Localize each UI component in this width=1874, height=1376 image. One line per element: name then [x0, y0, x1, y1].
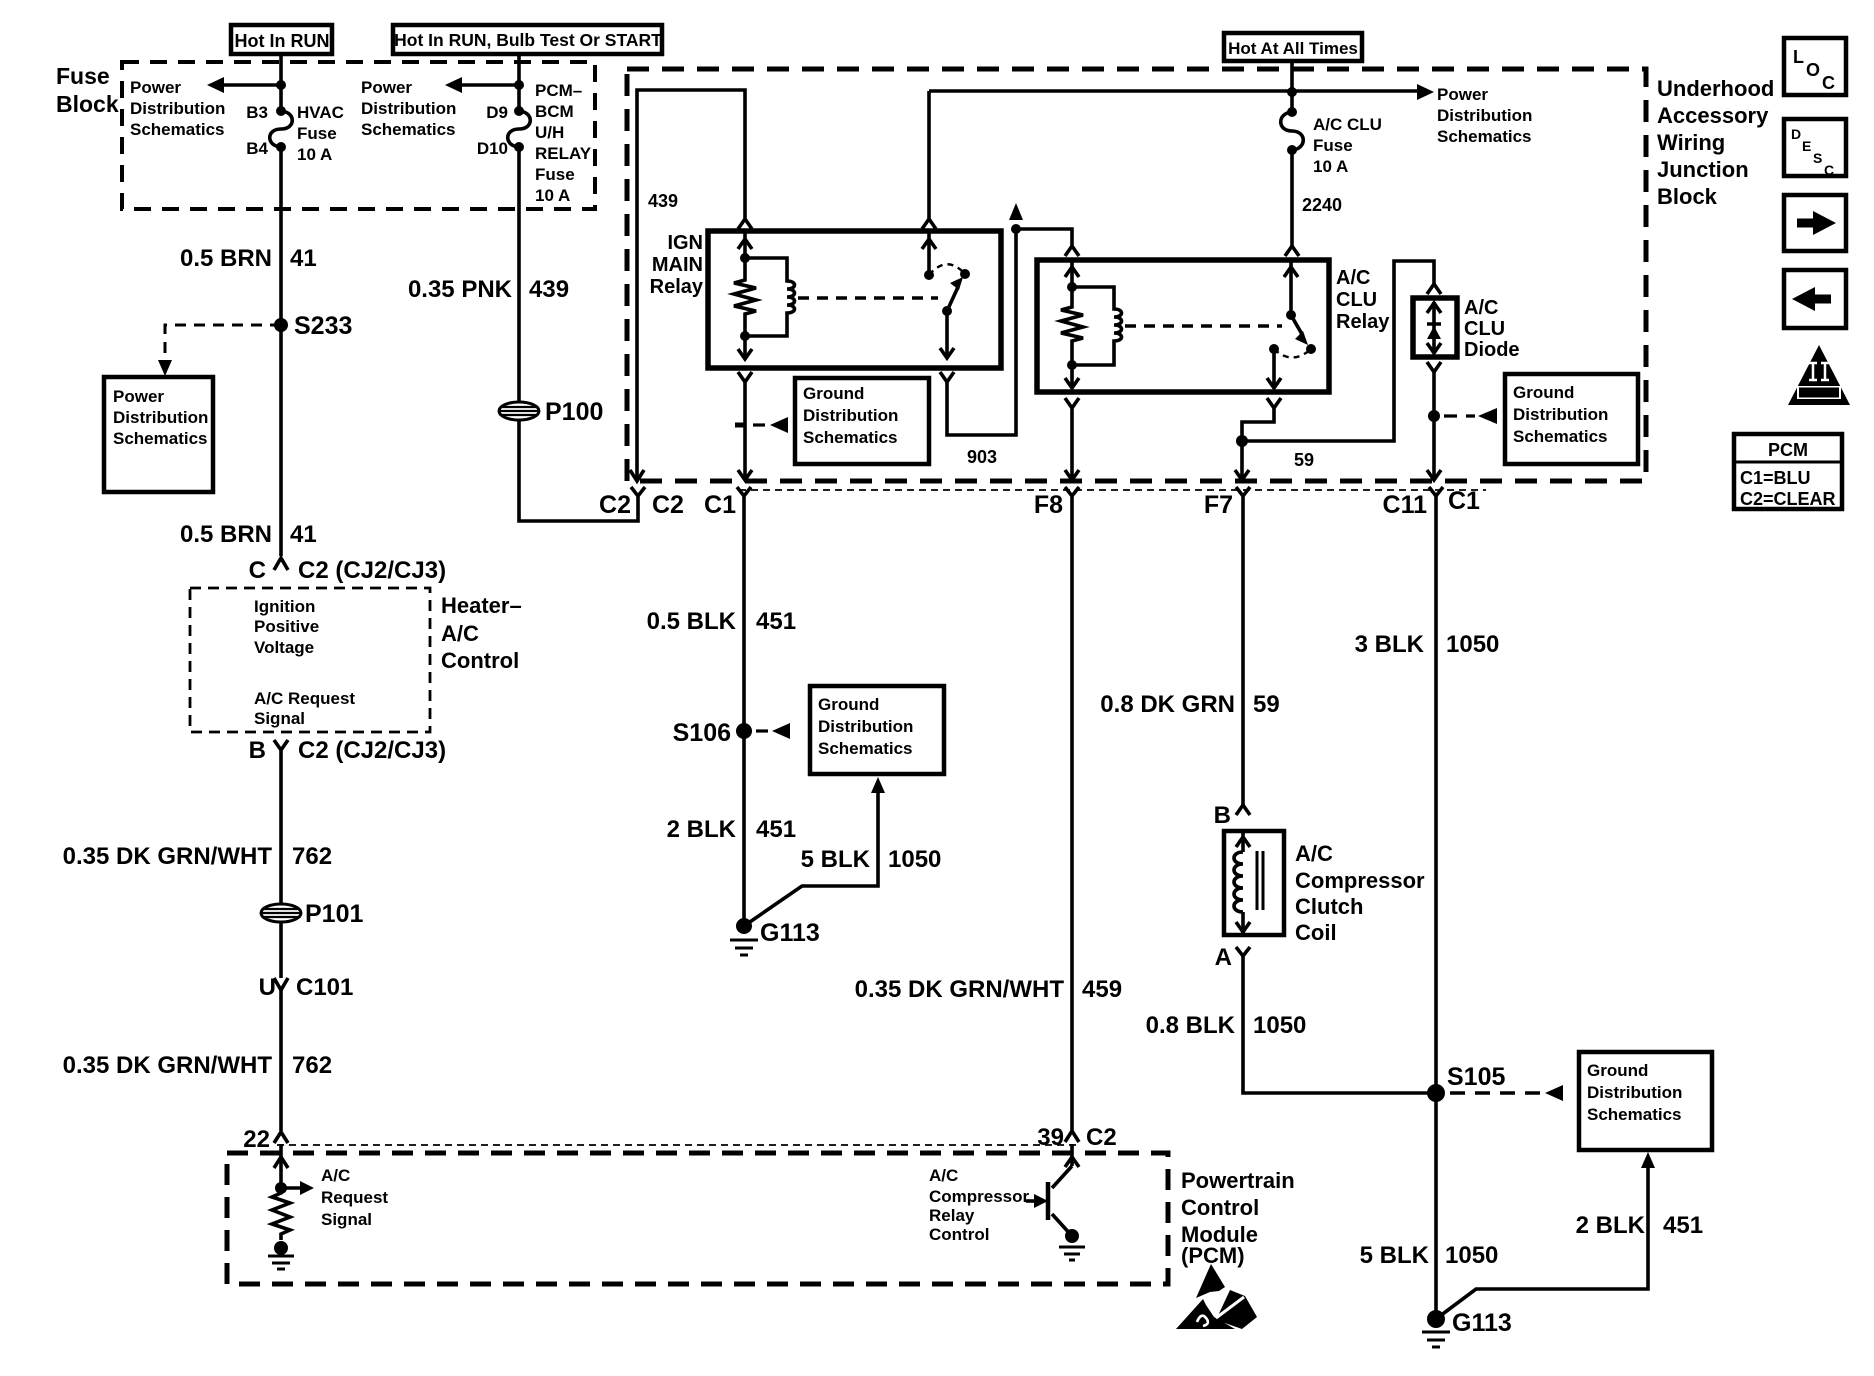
svg-text:G113: G113	[760, 919, 820, 947]
label: 5 BLK 1050 (left)	[801, 846, 942, 873]
label: 0.8 DK GRN 59	[1100, 691, 1279, 718]
svg-text:Distribution: Distribution	[113, 408, 208, 427]
svg-text:Schematics: Schematics	[1587, 1105, 1682, 1124]
svg-text:Distribution: Distribution	[361, 99, 456, 118]
svg-text:1050: 1050	[888, 846, 941, 873]
relay IGN MAIN: switch contacts	[924, 264, 970, 358]
svg-text:Block: Block	[1657, 184, 1718, 209]
svg-text:A/C: A/C	[1464, 297, 1498, 319]
svg-text:3 BLK: 3 BLK	[1355, 631, 1425, 658]
svg-text:(PCM): (PCM)	[1181, 1243, 1245, 1268]
wire: circuit 439 inside junction block	[630, 90, 745, 481]
pin C1 of junction block	[704, 487, 751, 519]
svg-text:Control: Control	[1181, 1195, 1259, 1220]
label: 0.35 PNK 439	[408, 276, 569, 303]
svg-text:Distribution: Distribution	[1513, 405, 1608, 424]
wire: 0.35 DK GRN/WHT 762 (upper)	[279, 758, 283, 905]
margin icon: OBD II triangle	[1788, 345, 1850, 405]
svg-text:Fuse: Fuse	[535, 165, 575, 184]
svg-text:Accessory: Accessory	[1657, 103, 1769, 128]
fuse: HVAC Fuse 10 A (B3-B4)	[246, 103, 344, 164]
margin icon: DESC box	[1784, 119, 1846, 178]
svg-text:A/C: A/C	[321, 1166, 350, 1185]
label: 2 BLK 451 (S106 branch)	[667, 816, 796, 843]
node: IGN relay ground reference	[735, 417, 788, 433]
margin icon: LOC box	[1784, 38, 1846, 95]
svg-text:Control: Control	[441, 648, 519, 673]
wire: 0.35 DK GRN/WHT 459 (F8 to PCM pin 39)	[1070, 496, 1074, 1131]
svg-text:0.35 PNK: 0.35 PNK	[408, 276, 513, 303]
svg-text:903: 903	[967, 447, 997, 467]
label: Fuse Block	[56, 63, 119, 117]
svg-text:MAIN: MAIN	[652, 254, 703, 276]
relay A/C CLU: outline	[1037, 260, 1329, 392]
pin A of A/C compressor clutch coil	[1215, 944, 1250, 971]
node: tap to power distribution (PCM-BCM fuse)	[445, 77, 524, 93]
pin B of A/C compressor clutch coil	[1214, 802, 1250, 829]
relay A/C CLU: actuation link (dashed)	[1125, 324, 1282, 328]
svg-text:HVAC: HVAC	[297, 103, 344, 122]
label: A/C CLU Relay	[1336, 267, 1390, 333]
svg-text:Schematics: Schematics	[1437, 127, 1532, 146]
label: IGN MAIN Relay	[650, 232, 704, 298]
pin C2 of junction block (feed)	[599, 487, 684, 519]
svg-text:C101: C101	[296, 974, 353, 1001]
svg-text:Distribution: Distribution	[803, 406, 898, 425]
svg-text:1050: 1050	[1446, 631, 1499, 658]
svg-text:Underhood: Underhood	[1657, 76, 1774, 101]
svg-text:Diode: Diode	[1464, 339, 1520, 361]
svg-text:PCM: PCM	[1768, 440, 1808, 460]
svg-text:Signal: Signal	[321, 1210, 372, 1229]
text: Power Distribution Schematics (top right)	[1437, 85, 1532, 146]
svg-text:E: E	[1802, 138, 1811, 154]
wire: 0.5 BRN 41 (fuse B4 to connector C)	[279, 147, 283, 556]
svg-text:C2: C2	[599, 491, 631, 519]
svg-text:Relay: Relay	[1336, 311, 1390, 333]
svg-text:O: O	[1806, 60, 1820, 80]
box: Ground Distribution Schematics (diode)	[1505, 374, 1638, 464]
wire: 0.8 DK GRN 59 (F7 to clutch coil B)	[1241, 496, 1245, 805]
svg-text:B: B	[1214, 802, 1231, 829]
svg-text:P101: P101	[305, 900, 363, 928]
svg-text:762: 762	[292, 843, 332, 870]
text: A/C Compressor Relay Control	[929, 1166, 1030, 1244]
wire: circuit 2240 (fuse to A/C CLU relay)	[1285, 150, 1342, 256]
label: 2 BLK 451 (right)	[1576, 1212, 1703, 1239]
svg-text:Heater–: Heater–	[441, 593, 522, 618]
pass-through connector P100	[499, 398, 603, 426]
svg-text:Relay: Relay	[650, 276, 704, 298]
svg-text:Distribution: Distribution	[1437, 106, 1532, 125]
wire: 2 BLK 451 (G113 up to ground distribution)	[1436, 1152, 1655, 1319]
relay IGN MAIN: switch pin feed	[922, 91, 936, 275]
pin 22 of PCM	[243, 1126, 288, 1153]
svg-text:0.5 BRN: 0.5 BRN	[180, 521, 272, 548]
svg-text:IGN: IGN	[667, 232, 703, 254]
svg-text:Power: Power	[130, 78, 181, 97]
wire: IGN relay coil ground side to C1	[738, 372, 752, 480]
svg-text:A/C: A/C	[441, 621, 479, 646]
margin icon: back arrow box	[1784, 270, 1846, 328]
svg-text:1050: 1050	[1445, 1242, 1498, 1269]
svg-text:D10: D10	[477, 139, 508, 158]
svg-text:C1: C1	[1448, 487, 1480, 515]
svg-text:BCM: BCM	[535, 102, 574, 121]
svg-text:Voltage: Voltage	[254, 638, 314, 657]
svg-text:451: 451	[756, 608, 796, 635]
svg-text:Schematics: Schematics	[803, 428, 898, 447]
wire: 0.35 PNK 439 (fuse D10 to P100 to C2)	[519, 147, 638, 521]
ESD sensitivity symbol	[1176, 1264, 1257, 1329]
svg-text:S: S	[1813, 150, 1822, 166]
svg-text:459: 459	[1082, 976, 1122, 1003]
svg-text:Schematics: Schematics	[113, 429, 208, 448]
node: tap to power distribution (HVAC fuse)	[207, 77, 286, 93]
svg-text:Hot In RUN: Hot In RUN	[235, 31, 330, 51]
relay A/C CLU: coil (resistor and winding in parallel)	[1061, 282, 1122, 388]
svg-text:P100: P100	[545, 398, 603, 426]
svg-text:0.5 BRN: 0.5 BRN	[180, 245, 272, 272]
svg-text:762: 762	[292, 1052, 332, 1079]
wire: 0.35 DK GRN/WHT 762 (lower)	[279, 990, 283, 1131]
wire: second feed into fuse block	[517, 54, 521, 111]
svg-text:Ground: Ground	[818, 695, 879, 714]
svg-text:0.5 BLK: 0.5 BLK	[647, 608, 737, 635]
svg-text:A/C Request: A/C Request	[254, 689, 355, 708]
A/C compressor clutch coil	[1224, 831, 1284, 935]
box: Ground Distribution Schematics (S106)	[810, 686, 944, 774]
svg-text:451: 451	[1663, 1212, 1703, 1239]
svg-text:C: C	[1822, 73, 1835, 93]
svg-text:Ground: Ground	[803, 384, 864, 403]
svg-text:C1=BLU: C1=BLU	[1740, 468, 1811, 488]
relay IGN MAIN: actuation link (dashed)	[798, 296, 938, 300]
svg-text:0.35 DK GRN/WHT: 0.35 DK GRN/WHT	[63, 1052, 273, 1079]
text: Power Distribution Schematics (fuse block right)	[361, 78, 456, 139]
ground G113 (left)	[730, 918, 820, 955]
pin C11/C1 of junction block	[1383, 487, 1481, 519]
svg-text:41: 41	[290, 245, 317, 272]
splice S106	[673, 719, 790, 747]
svg-text:Compressor: Compressor	[929, 1187, 1030, 1206]
svg-text:451: 451	[756, 816, 796, 843]
svg-text:OBD II: OBD II	[1805, 388, 1833, 398]
wire: 3 BLK 1050 (C11 to S105 to G113)	[1434, 496, 1438, 1319]
box: Ground Distribution Schematics (IGN relay)	[795, 378, 929, 464]
splice S105	[1427, 1063, 1563, 1102]
relay IGN MAIN: coil (resistor and winding in parallel)	[734, 253, 795, 359]
node: diode ground reference	[1428, 408, 1497, 424]
svg-text:Power: Power	[1437, 85, 1488, 104]
text: A/C Request Signal (PCM)	[321, 1166, 388, 1229]
svg-text:A/C: A/C	[1295, 841, 1333, 866]
pin 39 of PCM connector C2	[1037, 1124, 1116, 1151]
pin C of connector C2 (CJ2/CJ3)	[249, 557, 446, 584]
svg-text:Block: Block	[56, 91, 119, 117]
svg-text:0.8 DK GRN: 0.8 DK GRN	[1100, 691, 1235, 718]
svg-text:CLU: CLU	[1336, 289, 1377, 311]
wire: 5 BLK 1050 (G113 up to ground distribution)	[744, 777, 885, 926]
svg-text:2 BLK: 2 BLK	[1576, 1212, 1646, 1239]
text: Power Distribution Schematics (fuse block left)	[130, 78, 225, 139]
svg-text:D: D	[1791, 126, 1801, 142]
relay A/C CLU: coil pin	[1065, 246, 1079, 287]
pin F8 of junction block	[1034, 487, 1079, 519]
wire: diode to C11	[1427, 362, 1441, 480]
svg-text:5 BLK: 5 BLK	[1360, 1242, 1430, 1269]
svg-text:39: 39	[1037, 1124, 1064, 1151]
wire: 0.8 BLK 1050 (A to S105)	[1243, 964, 1436, 1093]
svg-text:B4: B4	[246, 139, 268, 158]
ground inside PCM (left)	[268, 1241, 294, 1269]
label box: Hot In RUN	[231, 25, 332, 54]
svg-text:Distribution: Distribution	[130, 99, 225, 118]
wire: P101 to C101	[279, 922, 283, 978]
label: Heater- A/C Control	[441, 593, 522, 673]
fuse: A/C CLU Fuse 10 A	[1281, 107, 1382, 176]
label: Powertrain Control Module (PCM)	[1181, 1168, 1295, 1268]
label box: Hot In RUN, Bulb Test Or START	[393, 25, 662, 54]
svg-text:Hot In RUN, Bulb Test Or START: Hot In RUN, Bulb Test Or START	[394, 30, 662, 50]
svg-text:F7: F7	[1204, 491, 1233, 519]
svg-text:C11: C11	[1383, 491, 1428, 519]
svg-text:5 BLK: 5 BLK	[801, 846, 871, 873]
svg-text:Coil: Coil	[1295, 920, 1337, 945]
svg-text:S105: S105	[1447, 1063, 1505, 1091]
svg-text:Power: Power	[113, 387, 164, 406]
wire: A/C relay coil ground side to F8	[1065, 398, 1079, 480]
PCM input: A/C request signal pull-up	[274, 1144, 314, 1195]
svg-text:2240: 2240	[1302, 195, 1342, 215]
svg-text:Schematics: Schematics	[818, 739, 913, 758]
svg-text:Distribution: Distribution	[818, 717, 913, 736]
svg-text:Fuse: Fuse	[1313, 136, 1353, 155]
relay IGN MAIN: coil pin	[738, 219, 752, 258]
svg-text:Powertrain: Powertrain	[1181, 1168, 1295, 1193]
PCM dashed box	[227, 1153, 1168, 1284]
svg-text:41: 41	[290, 521, 317, 548]
fuse: PCM-BCM U/H RELAY Fuse 10 A (D9-D10)	[477, 81, 592, 205]
svg-text:Power: Power	[361, 78, 412, 97]
svg-text:S106: S106	[673, 719, 731, 747]
svg-text:59: 59	[1253, 691, 1280, 718]
label: 0.8 BLK 1050	[1146, 1012, 1307, 1039]
svg-text:Hot At All Times: Hot At All Times	[1228, 39, 1358, 58]
connector C101 pin U	[259, 974, 354, 1001]
svg-text:Junction: Junction	[1657, 157, 1749, 182]
svg-text:Wiring: Wiring	[1657, 130, 1725, 155]
label box: Hot At All Times	[1224, 33, 1362, 61]
label: 0.35 DK GRN/WHT 459	[855, 976, 1122, 1003]
wire: main feed bus to A/C CLU fuse	[929, 62, 1434, 112]
fuse block dashed outline	[122, 62, 595, 209]
pin B of connector C2 (CJ2/CJ3)	[249, 737, 446, 764]
svg-text:0.35 DK GRN/WHT: 0.35 DK GRN/WHT	[855, 976, 1065, 1003]
svg-text:1050: 1050	[1253, 1012, 1306, 1039]
svg-text:Fuse: Fuse	[297, 124, 337, 143]
svg-text:C2: C2	[652, 491, 684, 519]
label: 0.5 BLK 451	[647, 608, 796, 635]
ground G113 (right)	[1422, 1309, 1512, 1347]
svg-text:S233: S233	[294, 312, 352, 340]
svg-text:0.35 DK GRN/WHT: 0.35 DK GRN/WHT	[63, 843, 273, 870]
svg-text:A/C: A/C	[929, 1166, 958, 1185]
splice S233	[274, 312, 352, 340]
label: 0.35 DK GRN/WHT 762 (lower)	[63, 1052, 332, 1079]
svg-text:A: A	[1215, 944, 1232, 971]
underhood accessory wiring junction block dashed outline	[627, 69, 1646, 481]
node: junction feeding A/C relay coil	[1009, 203, 1072, 246]
svg-text:C2 (CJ2/CJ3): C2 (CJ2/CJ3)	[298, 557, 446, 584]
margin icon: forward arrow box	[1784, 195, 1846, 251]
label: 0.5 BRN 41 (lower)	[180, 521, 317, 548]
legend box: PCM connectors	[1734, 434, 1842, 509]
svg-text:D9: D9	[486, 103, 508, 122]
pin F7 of junction block	[1204, 487, 1250, 519]
svg-text:Ground: Ground	[1587, 1061, 1648, 1080]
dashed reference from S233 to power distribution	[158, 325, 281, 376]
svg-text:C1: C1	[704, 491, 736, 519]
svg-text:Compressor: Compressor	[1295, 868, 1425, 893]
label: 0.5 BRN 41 (upper)	[180, 245, 317, 272]
box: Ground Distribution Schematics (S105)	[1579, 1052, 1712, 1150]
svg-text:59: 59	[1294, 450, 1314, 470]
label: 0.35 DK GRN/WHT 762 (upper)	[63, 843, 332, 870]
svg-text:B: B	[249, 737, 266, 764]
wire: circuit 59 branch to A/C CLU diode	[1242, 261, 1441, 470]
transistor: A/C compressor relay control driver	[1026, 1144, 1079, 1236]
svg-text:2 BLK: 2 BLK	[667, 816, 737, 843]
svg-text:Request: Request	[321, 1188, 388, 1207]
svg-text:C2=CLEAR: C2=CLEAR	[1740, 489, 1836, 509]
pass-through connector P101	[261, 900, 363, 928]
svg-text:Ground: Ground	[1513, 383, 1574, 402]
svg-text:Schematics: Schematics	[361, 120, 456, 139]
PCM connector face (thin dashed line)	[277, 1144, 1076, 1146]
label: A/C Compressor Clutch Coil	[1295, 841, 1425, 945]
label: Underhood Accessory Wiring Junction Block	[1657, 76, 1774, 209]
svg-text:CLU: CLU	[1464, 318, 1505, 340]
svg-text:Signal: Signal	[254, 709, 305, 728]
svg-text:RELAY: RELAY	[535, 144, 592, 163]
resistor: A/C request pull network	[272, 1188, 290, 1240]
box: Power Distribution Schematics (S233 reference)	[104, 377, 213, 492]
svg-text:Schematics: Schematics	[130, 120, 225, 139]
svg-text:0.8 BLK: 0.8 BLK	[1146, 1012, 1236, 1039]
svg-text:U/H: U/H	[535, 123, 564, 142]
svg-text:10 A: 10 A	[1313, 157, 1348, 176]
svg-text:Clutch: Clutch	[1295, 894, 1363, 919]
svg-text:Control: Control	[929, 1225, 989, 1244]
svg-text:C: C	[1824, 162, 1834, 178]
Heater A/C Control dashed box	[190, 588, 430, 732]
label: 5 BLK 1050 (right)	[1360, 1242, 1499, 1269]
svg-text:Schematics: Schematics	[1513, 427, 1608, 446]
svg-text:L: L	[1793, 47, 1804, 67]
label: 3 BLK 1050	[1355, 631, 1500, 658]
svg-text:A/C: A/C	[1336, 267, 1370, 289]
svg-text:Ignition: Ignition	[254, 597, 315, 616]
ground inside PCM (right)	[1059, 1229, 1085, 1260]
svg-text:C: C	[249, 557, 266, 584]
relay A/C CLU: switch contacts	[1267, 262, 1316, 388]
relay IGN MAIN: outline	[708, 231, 1001, 368]
svg-text:U: U	[259, 974, 276, 1001]
wire: circuit 903 (IGN relay output to A/C relay coil)	[940, 229, 1016, 467]
svg-text:Distribution: Distribution	[1587, 1083, 1682, 1102]
svg-text:10 A: 10 A	[297, 145, 332, 164]
svg-text:Positive: Positive	[254, 617, 319, 636]
svg-text:22: 22	[243, 1126, 270, 1153]
A/C CLU diode	[1413, 297, 1520, 361]
svg-text:B3: B3	[246, 103, 268, 122]
svg-text:439: 439	[648, 191, 678, 211]
svg-text:PCM–: PCM–	[535, 81, 582, 100]
wire: A/C relay switched output (circuit 59) to F7	[1235, 398, 1281, 480]
svg-text:Fuse: Fuse	[56, 63, 110, 89]
svg-text:10 A: 10 A	[535, 186, 570, 205]
junction block connector face (thin dashed line)	[739, 489, 1486, 491]
svg-text:Relay: Relay	[929, 1206, 975, 1225]
svg-text:F8: F8	[1034, 491, 1063, 519]
svg-text:439: 439	[529, 276, 569, 303]
svg-text:G113: G113	[1452, 1309, 1512, 1337]
svg-text:C2: C2	[1086, 1124, 1117, 1151]
wire: 0.5 BLK 451 (C1 to S106 to G113)	[742, 496, 746, 926]
svg-text:C2 (CJ2/CJ3): C2 (CJ2/CJ3)	[298, 737, 446, 764]
wire: Hot In RUN feed into fuse block	[279, 54, 283, 111]
svg-text:A/C CLU: A/C CLU	[1313, 115, 1382, 134]
